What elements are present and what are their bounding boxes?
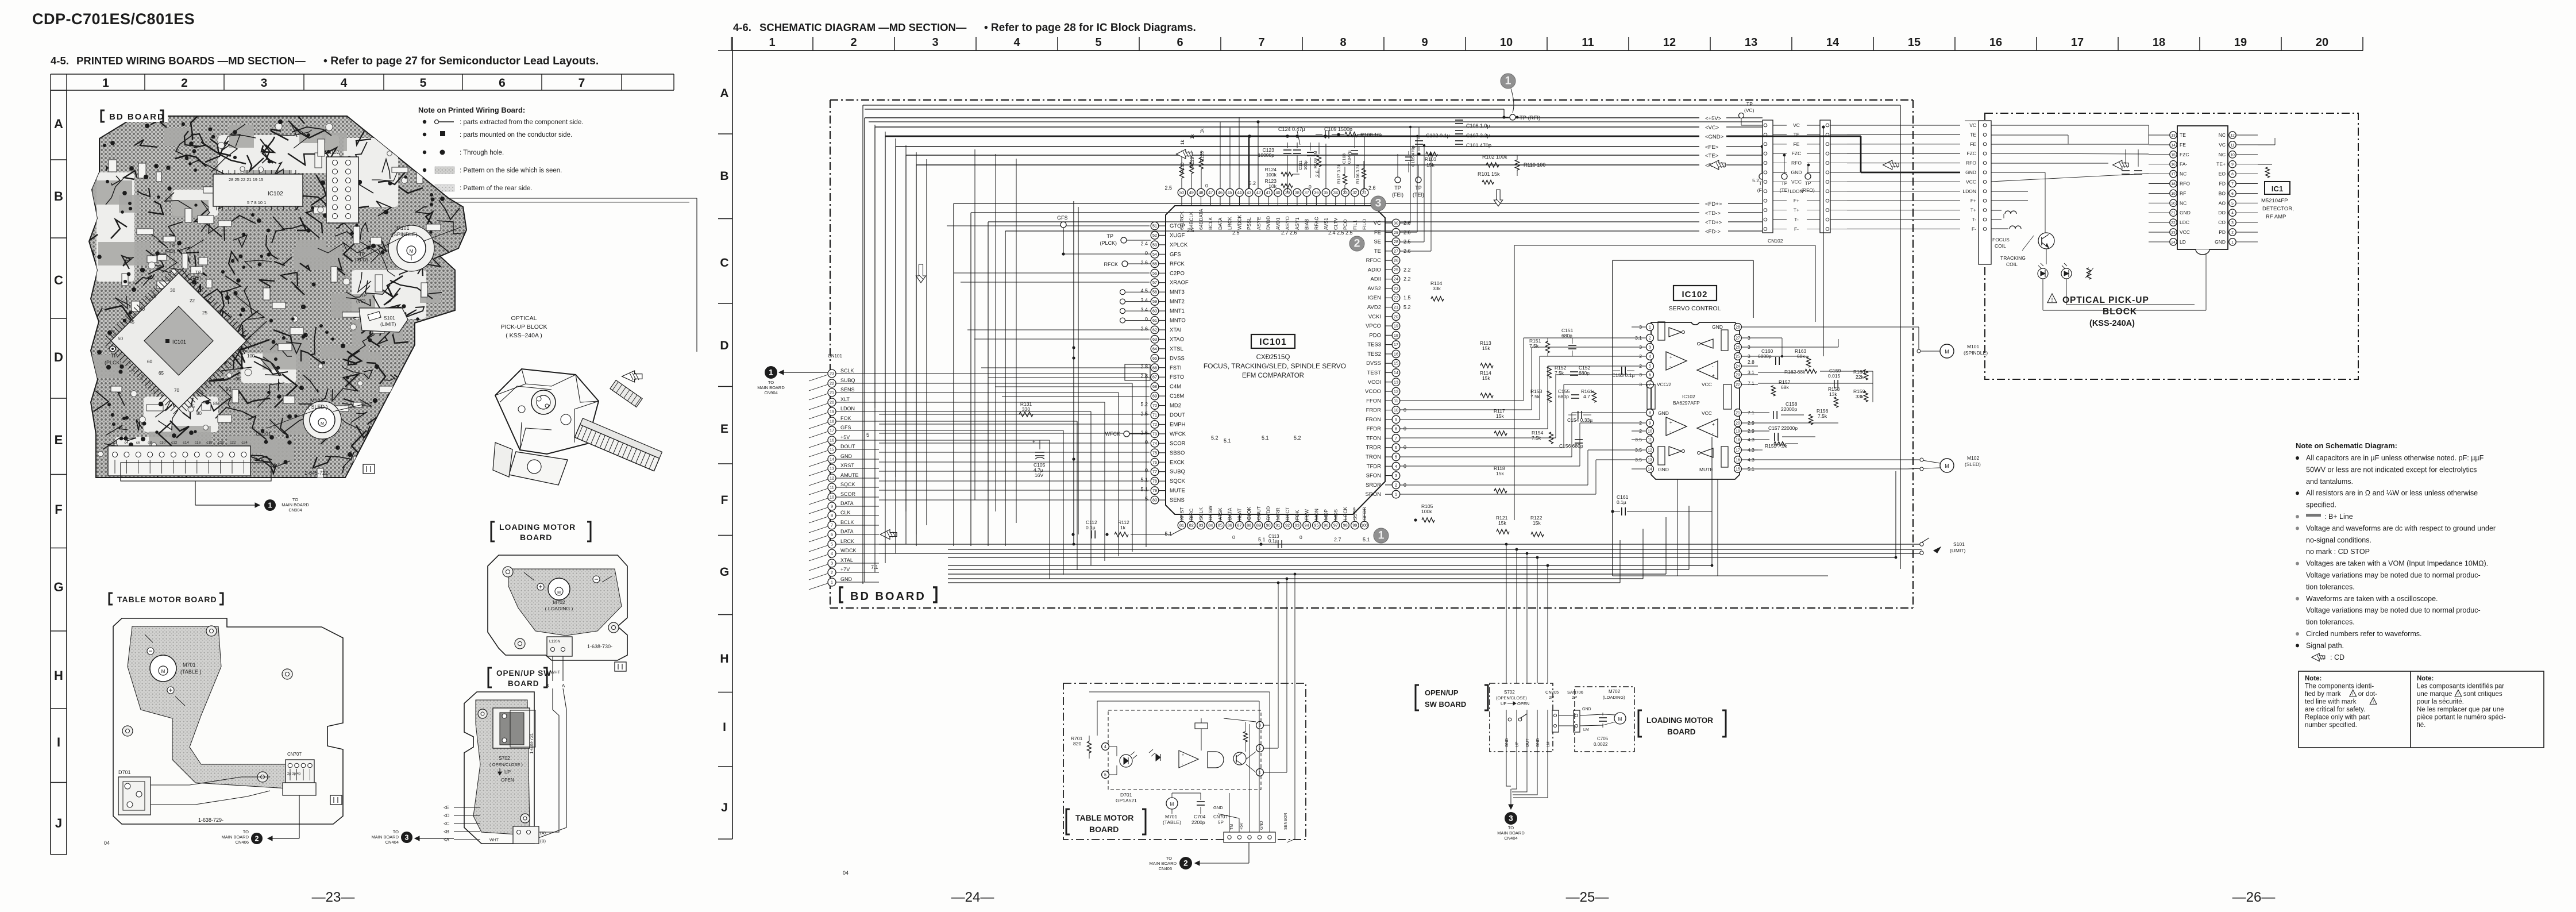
optocoupler bias resistors (1195, 723, 1208, 729)
svg-text:number specified.: number specified. (2305, 722, 2357, 729)
svg-text:6: 6 (499, 76, 506, 90)
svg-text:57: 57 (1152, 280, 1157, 285)
svg-text:PDO: PDO (1369, 332, 1381, 338)
svg-text:63: 63 (1152, 337, 1157, 342)
svg-text:(KSS-240A): (KSS-240A) (2089, 319, 2135, 328)
svg-text:XPLCK: XPLCK (1170, 242, 1188, 248)
svg-text:All resistors are in Ω and ¼W: All resistors are in Ω and ¼W or less un… (2306, 489, 2478, 497)
svg-text:99: 99 (1352, 523, 1357, 528)
svg-text:95: 95 (236, 376, 241, 382)
svg-text:OPTICAL PICK-UP: OPTICAL PICK-UP (2062, 295, 2149, 305)
svg-text:F: F (721, 494, 728, 507)
svg-text:15k: 15k (1482, 345, 1490, 351)
svg-text:51: 51 (1152, 224, 1157, 229)
signal arrow inside optical block (2113, 160, 2129, 170)
table motor M701 on pcb (150, 655, 176, 682)
svg-text:2.5: 2.5 (1140, 411, 1148, 417)
svg-text:5: 5 (420, 76, 427, 90)
svg-text:FOCUS: FOCUS (1992, 237, 2010, 243)
svg-text:73: 73 (1152, 431, 1157, 436)
wires IC101 upper right pins to top bus (1400, 222, 1410, 224)
svg-text:2.6: 2.6 (1140, 260, 1148, 265)
CN101 to IC101 horizontal wires (879, 414, 1150, 415)
svg-text:MAIN BOARD: MAIN BOARD (371, 834, 399, 840)
svg-text:3: 3 (1639, 382, 1642, 387)
svg-text:100k: 100k (1421, 509, 1432, 514)
svg-text:<FE>: <FE> (1705, 144, 1719, 151)
svg-text:RFO: RFO (1791, 160, 1802, 166)
ball 3 to main board CN404 (schematic) (1505, 812, 1517, 825)
svg-text:c4: c4 (124, 441, 128, 445)
svg-text:3: 3 (261, 76, 268, 90)
svg-text:ADII: ADII (1371, 276, 1381, 283)
svg-text:TE: TE (1374, 248, 1381, 255)
svg-text:16V: 16V (1035, 472, 1043, 478)
svg-text:R107 3.3k: R107 3.3k (1336, 164, 1341, 184)
svg-text:1: 1 (1378, 529, 1385, 542)
svg-text:SRON: SRON (1366, 491, 1382, 498)
right page grid ruler (732, 50, 2363, 51)
svg-text:SBSO: SBSO (1170, 450, 1185, 456)
svg-text:3.4: 3.4 (1140, 307, 1148, 313)
svg-text:AO: AO (2219, 200, 2226, 206)
svg-text:COIL: COIL (1995, 243, 2006, 249)
svg-text:XTAO: XTAO (1170, 336, 1184, 343)
svg-text:S702: S702 (499, 755, 510, 761)
TABLE MOTOR BOARD dash-dot box (1063, 683, 1306, 840)
svg-text:SFON: SFON (1366, 473, 1382, 479)
loading motor M702 on pcb (548, 578, 570, 600)
svg-text:10000p: 10000p (1258, 152, 1275, 158)
svg-text:MUTE: MUTE (1170, 488, 1185, 494)
svg-text:95: 95 (1314, 523, 1318, 528)
svg-text:IC101: IC101 (1259, 337, 1287, 347)
svg-text:5 7 8 10 1: 5 7 8 10 1 (247, 200, 266, 205)
svg-text:R110 100: R110 100 (1524, 162, 1545, 168)
svg-text:IC1: IC1 (2272, 184, 2283, 193)
svg-text:VC: VC (1374, 220, 1381, 226)
svg-text:15k: 15k (1496, 471, 1504, 476)
svg-text:A: A (720, 87, 728, 100)
svg-text:ADIO: ADIO (1368, 267, 1381, 273)
svg-text:24: 24 (2171, 240, 2176, 244)
svg-text:48: 48 (1198, 190, 1203, 195)
svg-text:75: 75 (1152, 450, 1157, 455)
svg-text:The components identi-: The components identi- (2305, 683, 2374, 690)
svg-text:GND: GND (1712, 324, 1723, 330)
svg-text:(LOADING): (LOADING) (1603, 695, 1625, 700)
svg-text:3: 3 (932, 36, 938, 49)
svg-text:C109 1500p: C109 1500p (1324, 126, 1352, 132)
svg-text:DVDD: DVDD (1266, 216, 1271, 230)
svg-text:C4M: C4M (1170, 384, 1181, 390)
svg-text:C704: C704 (1194, 814, 1206, 819)
svg-text:R162 68k: R162 68k (1784, 369, 1806, 375)
svg-text:24: 24 (1736, 365, 1740, 369)
IC101 top pins 50-31 (1178, 188, 1186, 197)
svg-text:100k: 100k (1266, 172, 1277, 178)
svg-text:19: 19 (1394, 324, 1398, 329)
svg-text:13: 13 (1394, 379, 1398, 384)
svg-text:7.5k: 7.5k (1555, 370, 1564, 376)
svg-text:70: 70 (1152, 403, 1157, 408)
svg-text:13: 13 (830, 466, 834, 471)
svg-text:C705: C705 (1597, 736, 1609, 741)
svg-text:LM: LM (1583, 728, 1589, 732)
svg-text:(FEI): (FEI) (1392, 192, 1403, 198)
svg-text:M: M (1945, 349, 1949, 355)
svg-text:TP: TP (1394, 185, 1401, 191)
svg-text:c20: c20 (218, 441, 225, 445)
svg-text:(RFO): (RFO) (355, 257, 368, 263)
svg-text:9: 9 (1421, 36, 1428, 49)
optical block transistor (2038, 233, 2054, 249)
svg-text:50WV or less are not indicated: 50WV or less are not indicated except fo… (2306, 465, 2477, 474)
svg-text:COIL: COIL (2006, 261, 2018, 267)
svg-text:DOUT: DOUT (1170, 412, 1185, 418)
svg-text:98: 98 (1343, 523, 1348, 528)
svg-text:FRON: FRON (1366, 417, 1381, 423)
svg-text:65: 65 (1152, 356, 1157, 361)
svg-text:(TEI): (TEI) (1413, 192, 1424, 198)
svg-text:70: 70 (174, 388, 179, 393)
svg-text:VCC: VCC (1702, 410, 1712, 416)
svg-text:(B): (B) (540, 838, 546, 844)
optical block capacitors (2122, 170, 2130, 171)
svg-text:TP: TP (1805, 180, 1811, 186)
svg-text:G: G (720, 565, 729, 579)
svg-text:20: 20 (2316, 36, 2328, 49)
svg-text:4-6.: 4-6. (733, 21, 751, 33)
IC101 bottom pins 81-100 (1178, 521, 1186, 529)
svg-text:1: 1 (1395, 492, 1397, 497)
svg-text:CN904: CN904 (764, 390, 777, 395)
svg-text:C153 0.1µ: C153 0.1µ (1612, 372, 1634, 378)
svg-text:12: 12 (1648, 449, 1652, 453)
svg-text:MAIN BOARD: MAIN BOARD (221, 834, 249, 840)
TP RFI test point and grey ball 1 (1501, 74, 1515, 88)
svg-text:G: G (53, 580, 63, 594)
svg-text:25: 25 (202, 310, 207, 315)
svg-text:<TD+>: <TD+> (1705, 220, 1722, 226)
BD BOARD label (left page) (99, 109, 168, 122)
svg-text:R102 100k: R102 100k (1482, 154, 1507, 160)
svg-text:: parts extracted from the com: : parts extracted from the component sid… (460, 119, 583, 126)
svg-text:GFS: GFS (1057, 215, 1068, 221)
svg-text:78: 78 (1152, 479, 1157, 484)
svg-text:MNTO: MNTO (1170, 318, 1186, 324)
svg-text:PICK-UP BLOCK: PICK-UP BLOCK (501, 324, 547, 330)
IC1 right pins 12-1 (2229, 132, 2236, 138)
svg-text:87: 87 (1237, 523, 1241, 528)
open/up sw board screw holes (478, 709, 487, 718)
conductor side mark box (363, 464, 375, 474)
svg-text:36: 36 (1314, 190, 1318, 195)
svg-text:DVSS: DVSS (1366, 360, 1381, 367)
svg-text:FSTO: FSTO (1170, 374, 1184, 380)
svg-text:VCC/2: VCC/2 (1657, 382, 1671, 387)
junction dots on GND bus (1248, 134, 1251, 138)
table motor board outline (113, 618, 343, 824)
svg-text:RFCK: RFCK (1104, 261, 1119, 267)
svg-text:1: 1 (1649, 326, 1651, 330)
IC1 label (2265, 182, 2290, 194)
svg-text:5: 5 (831, 542, 833, 547)
M101 spindle motor on pcb (388, 225, 434, 271)
svg-text:1: 1 (268, 502, 272, 510)
svg-text:2.4 2.5 2.5: 2.4 2.5 2.5 (1328, 230, 1353, 236)
svg-text:Voltage variations may be note: Voltage variations may be noted due to n… (2306, 571, 2481, 579)
svg-text:FSTI: FSTI (1170, 365, 1182, 371)
svg-text:64LRCK: 64LRCK (1179, 211, 1185, 230)
C110 line (869, 121, 1763, 122)
signal arrows on RF line (1710, 160, 1726, 170)
svg-text:FZC: FZC (1966, 151, 1976, 156)
svg-text:1-638-730-: 1-638-730- (587, 644, 612, 649)
svg-text:4: 4 (1104, 745, 1106, 749)
svg-text:2.7: 2.7 (1334, 537, 1341, 542)
loading motor board tail wires WHT B A (552, 656, 553, 681)
svg-text:TRACKING: TRACKING (2000, 255, 2026, 261)
svg-text:c10: c10 (160, 441, 166, 445)
svg-text:33: 33 (1343, 190, 1348, 195)
svg-text:680p: 680p (1579, 370, 1590, 376)
svg-text:tion tolerances.: tion tolerances. (2306, 583, 2355, 591)
svg-text:83: 83 (1198, 523, 1203, 528)
svg-text:GND: GND (2215, 239, 2226, 245)
svg-text:+: + (1669, 355, 1672, 360)
loading motor conductor-side mark box (615, 662, 626, 671)
svg-text:2.8: 2.8 (1748, 359, 1754, 365)
svg-text:EMPH: EMPH (1170, 421, 1186, 428)
LOADING MOTOR BOARD label (schematic) (1638, 710, 1642, 737)
IC1 left pins 13-24 (2170, 132, 2177, 138)
svg-text:24: 24 (1394, 276, 1398, 282)
svg-text:5: 5 (1095, 36, 1101, 49)
svg-text:<E: <E (444, 805, 449, 810)
svg-text:fied by mark: fied by mark (2305, 691, 2341, 698)
IC1 chip body (2177, 126, 2228, 249)
svg-text:PSSL: PSSL (1246, 217, 1252, 230)
IC102 label (1673, 286, 1717, 301)
svg-text:RFDC: RFDC (1366, 257, 1382, 264)
svg-text:and tantalums.: and tantalums. (2306, 478, 2353, 486)
S101 limit switch on pcb (359, 308, 408, 332)
svg-text:11: 11 (1394, 398, 1398, 403)
svg-text:(OPEN/CLOSE): (OPEN/CLOSE) (1496, 695, 1527, 701)
grey waveform ball 3 (1371, 196, 1386, 211)
svg-text:LM: LM (1547, 741, 1551, 747)
svg-text:22: 22 (830, 381, 834, 386)
svg-text:0.1µ: 0.1µ (1268, 538, 1278, 544)
svg-text:SCOR: SCOR (1170, 440, 1186, 447)
svg-text:21: 21 (1394, 305, 1398, 310)
svg-text:2.7 2.6: 2.7 2.6 (1281, 230, 1297, 236)
connector CN102 dual strip (1763, 120, 1773, 233)
TP FE TE RFO test points below bus (1761, 147, 1763, 174)
svg-text:23: 23 (1736, 374, 1740, 378)
svg-text:0.1µ: 0.1µ (1086, 525, 1096, 530)
svg-text:90: 90 (1266, 523, 1271, 528)
svg-text:LDC: LDC (2180, 220, 2189, 225)
TP stem junction dots (1761, 145, 1764, 148)
svg-text:DOUT: DOUT (840, 444, 855, 449)
svg-text:1k: 1k (1120, 525, 1126, 530)
svg-text:45: 45 (129, 320, 134, 325)
svg-text:SERVO CONTROL: SERVO CONTROL (1669, 305, 1721, 312)
svg-text:c8: c8 (148, 441, 152, 445)
svg-text:45: 45 (1228, 190, 1232, 195)
svg-text:80: 80 (1152, 498, 1157, 503)
R108 10k (1345, 132, 1358, 137)
optocoupler logic gate (1208, 752, 1224, 768)
svg-text:sont critiques: sont critiques (2463, 691, 2502, 698)
svg-text:S101: S101 (384, 315, 395, 321)
svg-text:6: 6 (2231, 192, 2234, 196)
svg-text:OPEN: OPEN (501, 778, 514, 783)
svg-text:4: 4 (1013, 36, 1020, 49)
svg-text:AVD2: AVD2 (1367, 305, 1381, 311)
svg-text:0: 0 (1232, 534, 1235, 540)
svg-text:5: 5 (866, 432, 869, 438)
svg-text:5: 5 (1649, 365, 1651, 369)
svg-text:10: 10 (2230, 153, 2235, 157)
svg-text:SQCK: SQCK (840, 482, 855, 487)
OPEN/UP SW BOARD label (schematic) (1416, 685, 1419, 710)
svg-text:10: 10 (830, 495, 834, 500)
svg-text:c24: c24 (241, 441, 248, 445)
MNT open test points (1120, 290, 1125, 295)
svg-text:une marque: une marque (2417, 691, 2452, 698)
svg-text:( LOADING ): ( LOADING ) (545, 606, 573, 611)
svg-text:18: 18 (2153, 36, 2165, 49)
svg-text:2.6: 2.6 (1140, 326, 1148, 332)
IC102 on pcb (213, 174, 303, 206)
svg-text:15k: 15k (1426, 162, 1434, 168)
svg-text:5.2: 5.2 (1752, 178, 1759, 183)
optical block internal wiring (1991, 125, 2149, 126)
svg-text:IGEN: IGEN (1368, 295, 1381, 301)
svg-text:—25—: —25— (1566, 890, 1609, 905)
svg-text:3: 3 (1748, 353, 1750, 359)
svg-text:1-638-729-: 1-638-729- (198, 817, 223, 823)
svg-text:7: 7 (1649, 383, 1651, 387)
bus junction dots (1277, 582, 1280, 584)
svg-text:CLTV: CLTV (1333, 218, 1339, 230)
grey waveform ball near bottom pins (1374, 528, 1389, 543)
svg-text:20: 20 (830, 400, 834, 405)
IC101 body (1166, 206, 1385, 514)
svg-text:J: J (721, 801, 728, 814)
svg-text:CN404: CN404 (385, 840, 399, 845)
svg-text:40: 40 (1275, 190, 1280, 195)
svg-text:NC: NC (2180, 171, 2186, 177)
svg-text:-: - (1712, 364, 1714, 369)
svg-text:(SLED): (SLED) (1965, 461, 1981, 467)
svg-text:—23—: —23— (312, 890, 355, 905)
svg-text:WFCK: WFCK (1105, 431, 1121, 437)
GND bus step to optical block (1728, 136, 1861, 137)
svg-text:6: 6 (1395, 445, 1397, 450)
svg-text:GFS: GFS (840, 425, 851, 430)
svg-text:50: 50 (118, 336, 123, 341)
svg-text:1: 1 (769, 36, 775, 49)
svg-text:(TE ): (TE ) (191, 276, 201, 281)
svg-text:AMUTE: AMUTE (840, 472, 859, 478)
svg-text:: Pattern of the rear side.: : Pattern of the rear side. (460, 185, 533, 192)
svg-text:9: 9 (2231, 163, 2234, 167)
svg-text:BOARD: BOARD (520, 533, 552, 542)
svg-text:F-: F- (1972, 226, 1976, 232)
svg-text:GND: GND (1658, 467, 1669, 472)
svg-text:14: 14 (1826, 36, 1840, 49)
TABLE MOTOR BOARD label (schematic) (1066, 809, 1070, 834)
svg-text:Voltages are taken with a VOM: Voltages are taken with a VOM (Input Imp… (2306, 560, 2488, 568)
svg-text:OPEN/UP: OPEN/UP (1425, 688, 1459, 697)
svg-text:2.2: 2.2 (1403, 276, 1411, 282)
svg-text:AVD1: AVD1 (1275, 217, 1281, 230)
svg-text:DATA: DATA (840, 529, 854, 534)
svg-text:16: 16 (1989, 36, 2002, 49)
svg-text:77: 77 (1152, 469, 1157, 474)
svg-text:TFDR: TFDR (1367, 463, 1381, 470)
svg-text:Voltage and waveforms are dc w: Voltage and waveforms are dc with respec… (2306, 524, 2496, 532)
svg-text:17: 17 (2071, 36, 2084, 49)
svg-text:: B+ Line: : B+ Line (2324, 513, 2353, 521)
focus coil symbol (2005, 211, 2016, 214)
svg-text:04: 04 (843, 870, 849, 876)
svg-text:19: 19 (2171, 192, 2176, 196)
svg-text:F: F (55, 502, 62, 517)
svg-text:5P: 5P (1218, 820, 1224, 825)
svg-text:NC: NC (2180, 200, 2186, 206)
svg-text:TEST: TEST (1367, 370, 1381, 376)
BD BOARD label (schematic) (840, 587, 843, 602)
svg-text:FZC: FZC (1792, 151, 1802, 156)
table motor conductor-side mark box (330, 795, 342, 805)
svg-text:TO: TO (243, 829, 249, 834)
svg-text:C107 2.2µ: C107 2.2µ (1466, 133, 1490, 138)
optocoupler amplifier triangle (1179, 751, 1198, 768)
svg-text:TFON: TFON (1366, 435, 1381, 441)
svg-text:: CD: : CD (2330, 653, 2344, 661)
svg-text:6: 6 (831, 532, 833, 537)
svg-text:3.5: 3.5 (1635, 457, 1642, 463)
svg-text:CN406: CN406 (236, 840, 249, 845)
svg-text:97: 97 (1333, 523, 1338, 528)
svg-text:TP: TP (1781, 180, 1788, 186)
svg-text:C102 0.1µ: C102 0.1µ (1426, 133, 1450, 138)
svg-text:+: + (1032, 439, 1035, 445)
svg-text:15: 15 (1908, 36, 1921, 49)
IC102 chip body (1651, 322, 1740, 479)
svg-text:(VC): (VC) (356, 299, 366, 304)
svg-text:DO: DO (2218, 210, 2226, 216)
svg-text:M102: M102 (1967, 455, 1980, 461)
svg-text:35: 35 (151, 294, 156, 299)
optical block photo diodes (2038, 268, 2048, 279)
svg-text:Note:: Note: (2305, 675, 2322, 682)
svg-text:330: 330 (1022, 406, 1030, 412)
svg-text:91: 91 (1275, 523, 1280, 528)
svg-text:c22: c22 (230, 441, 236, 445)
svg-text:21: 21 (830, 390, 834, 395)
svg-text:3: 3 (831, 561, 833, 566)
svg-text:TE: TE (1970, 132, 1976, 137)
svg-text:(PLCK): (PLCK) (1100, 240, 1117, 246)
svg-text:VCOO: VCOO (1365, 388, 1381, 395)
svg-text:13k: 13k (1829, 391, 1837, 397)
